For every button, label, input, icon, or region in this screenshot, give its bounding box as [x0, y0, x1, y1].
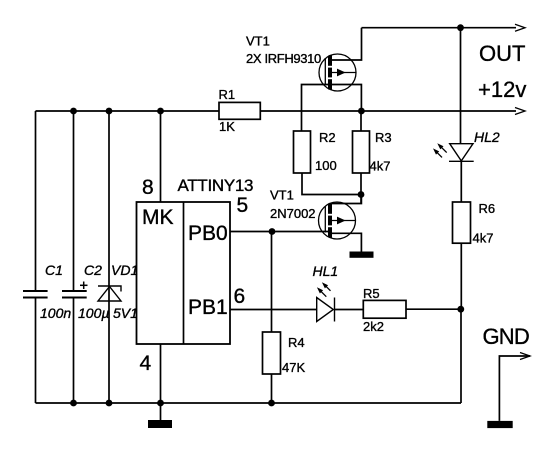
- VT1a gate/source bottom wire: [302, 85, 362, 132]
- svg-text:6: 6: [234, 285, 246, 308]
- wire HL2 top from OUT node: [460, 28, 462, 144]
- svg-text:2N7002: 2N7002: [270, 206, 316, 221]
- resistor R3: [353, 131, 370, 173]
- ground bar under VT1b: [350, 252, 374, 258]
- wire ground rail bottom: [36, 402, 462, 404]
- wire R6 to node: [460, 243, 462, 309]
- svg-text:MK: MK: [142, 206, 174, 229]
- svg-text:OUT: OUT: [479, 41, 525, 66]
- ground bar bottom: [148, 420, 172, 428]
- wire VD1 branch vertical: [108, 111, 110, 403]
- wire +12v rail top-left to R1 and to right arrow: [36, 110, 517, 112]
- wire OUT rail: [362, 27, 517, 29]
- svg-text:47K: 47K: [282, 360, 305, 375]
- VT1b gate line: [324, 206, 326, 233]
- svg-text:VT1: VT1: [246, 34, 270, 49]
- wire PB0 pulldown vertical to R4: [271, 232, 273, 333]
- GND arrow and ground symbol right: [499, 356, 530, 421]
- svg-text:PB1: PB1: [188, 296, 228, 319]
- VT1b channel bar: [328, 204, 332, 238]
- wire R4 bottom to ground rail: [271, 374, 273, 403]
- resistor R1: [219, 102, 260, 119]
- svg-text:5V1: 5V1: [113, 305, 138, 321]
- svg-text:4k7: 4k7: [370, 159, 391, 174]
- transistor VT1b 2N7002: [319, 195, 362, 252]
- wire HL1 to R5: [335, 309, 364, 311]
- svg-text:VD1: VD1: [111, 262, 138, 278]
- svg-text:5: 5: [237, 194, 249, 217]
- svg-text:4: 4: [140, 352, 152, 375]
- VT1b source wire to ground: [330, 233, 361, 251]
- LED HL2 emission arrows: [437, 147, 447, 157]
- svg-text:R1: R1: [219, 87, 236, 102]
- wire HL2 to R6: [460, 161, 462, 202]
- wire C1 branch vertical: [35, 111, 37, 291]
- IC divider: [183, 202, 185, 344]
- VT1a middle terminal and arrow: [332, 72, 356, 74]
- svg-text:VT1: VT1: [270, 188, 294, 203]
- svg-text:ATTINY13: ATTINY13: [178, 176, 254, 195]
- svg-text:R6: R6: [479, 201, 496, 216]
- wire pin4 vertical: [160, 344, 162, 403]
- wire C2 branch vertical: [73, 111, 75, 291]
- ground bar right: [487, 421, 512, 428]
- svg-text:HL1: HL1: [313, 263, 339, 279]
- LED HL1: [317, 298, 335, 322]
- wire R2,R3 bottoms to drain node: [302, 173, 361, 204]
- svg-text:8: 8: [142, 176, 154, 199]
- LED HL1 emission arrows: [321, 286, 331, 297]
- zener diode VD1: [98, 286, 121, 301]
- svg-text:2X IRFH9310: 2X IRFH9310: [246, 51, 321, 66]
- svg-text:2k2: 2k2: [363, 319, 384, 334]
- ground stub pin4: [160, 403, 162, 420]
- C2 plus sign: [80, 282, 88, 290]
- VT1a drain wire up to OUT rail: [332, 28, 362, 60]
- svg-text:R4: R4: [288, 335, 305, 350]
- svg-text:C1: C1: [45, 262, 63, 278]
- svg-text:4k7: 4k7: [473, 231, 494, 246]
- wire +12v arrow head: [515, 108, 525, 115]
- capacitor C2: [62, 291, 87, 298]
- wire R5 to node: [406, 308, 461, 310]
- svg-text:+12v: +12v: [478, 77, 526, 102]
- svg-text:100µ: 100µ: [78, 305, 109, 321]
- svg-text:100n: 100n: [40, 305, 71, 321]
- capacitor C1: [23, 291, 48, 298]
- transistor VT1a IRFH9310: [302, 28, 362, 131]
- svg-text:R2: R2: [319, 130, 336, 145]
- resistor R4: [263, 332, 281, 374]
- resistor R5: [363, 300, 406, 318]
- wire bottom-right riser: [460, 309, 462, 403]
- VT1b middle terminal and arrow: [332, 220, 356, 222]
- resistor R6: [453, 202, 471, 243]
- svg-text:1K: 1K: [219, 119, 235, 134]
- resistor R2: [294, 131, 311, 173]
- VT1b drain wire: [332, 195, 361, 204]
- wire pin8 vertical: [160, 111, 162, 202]
- svg-text:C2: C2: [84, 262, 102, 278]
- wire R3 top: [360, 111, 362, 131]
- IC U1 MK ATTINY13 body: [137, 202, 231, 344]
- svg-text:R5: R5: [363, 286, 380, 301]
- svg-text:R3: R3: [375, 130, 392, 145]
- svg-text:100: 100: [315, 158, 337, 173]
- svg-text:PB0: PB0: [188, 222, 228, 245]
- wire PB1 to HL1: [230, 309, 317, 311]
- VT1a channel bar: [328, 56, 332, 90]
- LED HL2: [449, 144, 474, 162]
- svg-text:GND: GND: [483, 324, 530, 349]
- VT1a gate line: [324, 58, 326, 85]
- svg-text:HL2: HL2: [474, 129, 500, 145]
- wire PB0 to gate VT1b: [230, 231, 330, 233]
- wire OUT arrow head: [515, 24, 525, 31]
